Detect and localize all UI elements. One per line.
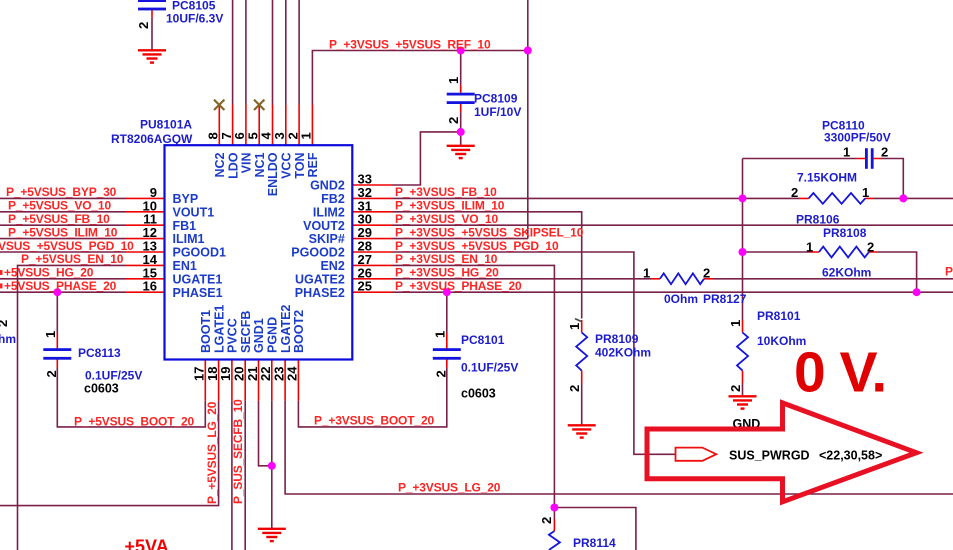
svg-text:UGATE2: UGATE2: [295, 272, 345, 286]
svg-text:PR8114: PR8114: [573, 536, 616, 550]
svg-text:25: 25: [358, 279, 372, 294]
wire pin7 VIN riser from top edge: [232, 0, 234, 105]
pin 24 stub: [297, 360, 299, 401]
svg-text:2: 2: [136, 22, 151, 29]
svg-text:PU8101A: PU8101A: [140, 118, 192, 132]
svg-text:GND1: GND1: [252, 318, 266, 353]
svg-text:1: 1: [433, 331, 448, 338]
wire REF net pin1 to horizontal run: [312, 51, 527, 105]
resistor PR8127 stubs: [651, 278, 713, 280]
svg-text:SECFB: SECFB: [239, 311, 253, 353]
pin 15 stub: [126, 278, 165, 280]
svg-text:1: 1: [446, 77, 461, 84]
svg-text:2: 2: [0, 320, 10, 327]
resistor PR8114 zigzag (cut off at bottom): [549, 531, 560, 550]
svg-text:P_+3VSUS_BOOT_20: P_+3VSUS_BOOT_20: [314, 414, 434, 428]
wire pin4 riser from top edge: [272, 0, 274, 105]
no-connect X on pin 5: [254, 100, 264, 110]
wire +3VSUS_ILIM_10 net with drop to PR8109: [393, 212, 582, 319]
wire pin2 riser from top edge: [298, 0, 300, 105]
resistor PR8108 stubs: [810, 251, 878, 253]
capacitor PC8101 plates: [433, 348, 461, 359]
wire +5VSUS_BYP_30 net: [0, 197, 126, 199]
svg-text:PGOOD1: PGOOD1: [173, 246, 227, 260]
wire PC8113 bottom to BOOT1 pin17: [57, 368, 205, 427]
pin 10 stub: [126, 211, 165, 213]
svg-text:<22,30,58>: <22,30,58>: [819, 449, 882, 463]
svg-text:PHASE1: PHASE1: [173, 286, 223, 300]
wire +3VSUS_FB_10 net right part to edge: [874, 197, 953, 199]
node junction dot PHASE/PC8101: [443, 288, 451, 296]
svg-text:SKIP#: SKIP#: [309, 232, 345, 246]
pin 4 stub: [272, 105, 274, 146]
capacitor PC8110 plates: [865, 148, 874, 169]
pin 23 stub: [284, 360, 286, 401]
svg-text:RT8206AGQW: RT8206AGQW: [111, 132, 193, 146]
svg-text:PGND: PGND: [266, 317, 280, 353]
pin 19 stub: [231, 360, 233, 401]
svg-text:P_+5VSUS_LG_20: P_+5VSUS_LG_20: [205, 401, 219, 504]
svg-text:PR8108: PR8108: [823, 226, 867, 240]
capacitor PC8101 stubs: [446, 333, 448, 368]
node junction dot 62K left: [739, 248, 747, 256]
resistor PR8114 stub: [553, 519, 555, 531]
svg-text:2: 2: [881, 145, 888, 160]
resistor PR8108 zigzag 62KOhm: [819, 247, 869, 258]
svg-text:0Ohm: 0Ohm: [664, 292, 698, 306]
wire PR8101 bottom lead to ground: [742, 383, 744, 396]
net label sliver cut at left edge (HG row): [0, 270, 3, 275]
wire +5VSUS_EN_10 net with drop to bottom edge: [18, 265, 126, 550]
pin 14 stub: [126, 264, 165, 266]
capacitor PC8109 stubs: [460, 85, 462, 112]
node junction dot PHASE/PC8113: [53, 288, 61, 296]
svg-text:P_+3VSUS_+5VSUS_PGD_10: P_+3VSUS_+5VSUS_PGD_10: [395, 239, 559, 253]
pin 22 stub: [271, 360, 273, 401]
wire SECFB pin20 to bottom edge: [244, 401, 246, 550]
svg-text:PR8101: PR8101: [757, 309, 801, 323]
svg-text:2: 2: [446, 117, 461, 124]
net label sliver cut at left edge (PHASE row): [0, 283, 3, 288]
svg-text:PC8101: PC8101: [461, 333, 505, 347]
node junction dot GND1/PGND: [268, 462, 276, 470]
svg-text:UGATE1: UGATE1: [173, 272, 223, 286]
svg-text:+5VSUS_PHASE_20: +5VSUS_PHASE_20: [4, 279, 117, 293]
wire +5VSUS_ILIM_10 net: [0, 238, 126, 240]
wire PC8101 top lead from PHASE junction: [446, 292, 448, 333]
svg-text:1: 1: [567, 323, 582, 330]
svg-text:P_+3VSUS_VO_10: P_+3VSUS_VO_10: [395, 212, 498, 226]
node junction dot FB line right: [899, 194, 907, 202]
capacitor PC8113 plates: [43, 348, 71, 359]
svg-text:FB1: FB1: [173, 219, 197, 233]
svg-text:BYP: BYP: [173, 192, 199, 206]
wire +5VSUS_PHASE_20 net: [0, 291, 126, 293]
wire +3VSUS_EN_10 net with drop to PR8114 junction: [393, 265, 555, 507]
wire pin6 riser from top edge: [245, 0, 247, 105]
node junction dot REF right end: [524, 47, 532, 55]
wire pin3 riser from top edge: [285, 0, 287, 105]
wire PC8110 left lead: [743, 158, 857, 160]
svg-text:1: 1: [843, 145, 850, 160]
wire PC8109 bottom lead to junction and ground: [460, 112, 462, 146]
svg-text:1: 1: [862, 185, 869, 200]
svg-text:P_+5VSUS_FB_10: P_+5VSUS_FB_10: [8, 212, 110, 226]
pin 17 stub: [204, 360, 206, 401]
svg-text:LGATE2: LGATE2: [279, 305, 293, 353]
svg-text:0 V.: 0 V.: [794, 341, 886, 405]
svg-text:3300PF/50V: 3300PF/50V: [824, 131, 891, 145]
svg-text:P_+3VSUS_+5VSUS_SKIPSEL_10: P_+3VSUS_+5VSUS_SKIPSEL_10: [395, 225, 584, 239]
pin 2 stub: [298, 105, 300, 146]
svg-text:NC1: NC1: [253, 152, 267, 177]
pin 1 stub: [311, 105, 313, 146]
svg-text:PGOOD2: PGOOD2: [291, 246, 345, 260]
svg-text:62KOhm: 62KOhm: [822, 266, 871, 280]
svg-text:P_+3VSUS_PHASE_20: P_+3VSUS_PHASE_20: [395, 279, 522, 293]
svg-text:ILIM1: ILIM1: [173, 232, 205, 246]
svg-text:2: 2: [434, 370, 449, 377]
capacitor PC8110 stubs: [857, 158, 883, 160]
svg-text:EN2: EN2: [320, 259, 344, 273]
svg-text:P_+5VSUS_BYP_30: P_+5VSUS_BYP_30: [6, 185, 117, 199]
resistor PR8106 zigzag 7.15KOHM: [809, 193, 866, 204]
svg-text:ENLDO: ENLDO: [266, 152, 280, 196]
pin 5 stub: [258, 105, 260, 145]
svg-text:2: 2: [867, 240, 874, 255]
no-connect X on pin 8: [214, 100, 224, 110]
svg-text:2: 2: [44, 370, 59, 377]
wire 62KOhm left lead: [743, 251, 811, 253]
wire PC8105 bottom lead to ground: [151, 18, 153, 50]
svg-text:TON: TON: [293, 153, 307, 179]
svg-text:24: 24: [285, 366, 300, 381]
pin 12 stub: [126, 238, 165, 240]
svg-text:PR8127: PR8127: [703, 292, 747, 306]
svg-text:hm: hm: [0, 332, 16, 346]
pin 28 stub: [352, 251, 392, 253]
pin 13 stub: [126, 251, 165, 253]
pin 30 stub: [352, 224, 392, 226]
svg-text:PC8113: PC8113: [78, 346, 121, 360]
wire PC8110 right lead down to FB line: [882, 159, 903, 199]
wire PGD net with drop to SUS_PWRGD pointer: [393, 252, 676, 454]
svg-text:+5VSUS_HG_20: +5VSUS_HG_20: [4, 266, 94, 280]
pin 21 stub: [258, 360, 260, 401]
wire PC8109 top lead: [460, 51, 462, 86]
svg-text:EN1: EN1: [173, 259, 197, 273]
resistor PR8109 stubs: [581, 320, 583, 383]
svg-text:P_+5VSUS_ILIM_10: P_+5VSUS_ILIM_10: [8, 225, 118, 239]
svg-text:PHASE2: PHASE2: [295, 286, 345, 300]
pin 27 stub: [352, 264, 392, 266]
wire +3VSUS_FB_10 net left part: [393, 197, 800, 199]
svg-text:P_+3VSUS_ILIM_10: P_+3VSUS_ILIM_10: [395, 199, 505, 213]
svg-text:7.15KOHM: 7.15KOHM: [797, 171, 857, 185]
node junction dot GND2/PC8109/ground: [457, 128, 465, 136]
svg-text:c0603: c0603: [461, 387, 496, 401]
wire +3VSUS_HG_20 net left of 0Ohm: [393, 278, 652, 280]
pin 31 stub: [352, 211, 392, 213]
svg-text:+5VA: +5VA: [125, 537, 169, 550]
resistor PR8109 zigzag 402KOhm: [576, 333, 587, 371]
pin 6 stub: [245, 105, 247, 146]
node junction dot REF at PC8109 riser: [457, 47, 465, 55]
svg-text:P_+3VSUS_LG_20: P_+3VSUS_LG_20: [398, 481, 501, 495]
wire +3VSUS_HG_20 net right of 0Ohm to edge: [713, 278, 953, 280]
wire end tick at PR8109 top: [575, 319, 581, 322]
svg-text:0.1UF/25V: 0.1UF/25V: [85, 369, 142, 383]
wire +5VSUS_PGD_10 net: [0, 251, 126, 253]
svg-text:FB2: FB2: [321, 192, 345, 206]
svg-text:2: 2: [539, 517, 554, 524]
svg-text:P_+5VSUS_VO_10: P_+5VSUS_VO_10: [8, 199, 111, 213]
pin 18 stub: [218, 360, 220, 401]
capacitor PC8105 stubs: [151, 10, 153, 18]
resistor PR8127 zigzag 0Ohm: [660, 273, 704, 284]
ground symbol GND at PR8101: [729, 396, 757, 408]
svg-text:P_+3VSUS_FB_10: P_+3VSUS_FB_10: [395, 185, 497, 199]
svg-text:LDO: LDO: [226, 152, 240, 179]
svg-text:BOOT1: BOOT1: [199, 310, 213, 353]
wire +5VSUS_VO_10 net: [0, 211, 126, 213]
svg-text:2: 2: [791, 185, 798, 200]
wire PVCC pin19 to bottom edge: [231, 401, 233, 550]
svg-text:1: 1: [806, 240, 813, 255]
pin 29 stub: [352, 238, 392, 240]
svg-text:PR8106: PR8106: [796, 213, 840, 227]
svg-text:BOOT2: BOOT2: [292, 310, 306, 353]
svg-text:P_: P_: [945, 265, 953, 279]
svg-text:c0603: c0603: [84, 382, 119, 396]
pin 32 stub: [352, 197, 392, 199]
wire +3VSUS_PHASE_20 net: [393, 291, 953, 293]
wire +5VSUS_HG_20 net: [0, 278, 126, 280]
svg-text:P_SUS_SECFB_10: P_SUS_SECFB_10: [231, 399, 245, 504]
svg-text:PVCC: PVCC: [226, 318, 240, 353]
wire REF riser to top edge and down to SKIPSEL row: [527, 0, 529, 239]
pin 11 stub: [126, 224, 165, 226]
pin 7 stub: [232, 105, 234, 146]
wire LGATE2 pin23 +3VSUS_LG_20 net to right edge: [285, 401, 953, 494]
wire SKIPSEL net: [393, 238, 528, 240]
pin 3 stub: [285, 105, 287, 146]
svg-text:P_+3VSUS_HG_20: P_+3VSUS_HG_20: [395, 266, 499, 280]
pin 20 stub: [244, 360, 246, 401]
pin 33 stub: [352, 184, 392, 186]
pin 25 stub: [352, 291, 392, 293]
svg-text:1: 1: [43, 331, 58, 338]
svg-text:SUS_PWRGD: SUS_PWRGD: [729, 449, 810, 463]
svg-text:REF: REF: [306, 152, 320, 177]
node junction dot 62K right on PHASE line: [913, 288, 921, 296]
wire PGND pin22 to ground: [271, 401, 273, 529]
pin 26 stub: [352, 278, 392, 280]
wire LGATE1 pin18 to left edge: [0, 401, 219, 506]
svg-text:1: 1: [643, 266, 650, 281]
wire GND2 net to PC8109/ground junction: [393, 132, 461, 185]
svg-text:2: 2: [567, 385, 582, 392]
resistor PR8101 stubs: [742, 320, 744, 383]
svg-text:2: 2: [703, 266, 710, 281]
svg-text:NC2: NC2: [213, 152, 227, 177]
svg-text:P_+3VSUS_EN_10: P_+3VSUS_EN_10: [395, 252, 498, 266]
capacitor PC8105 plates: [138, 0, 166, 10]
svg-text:VSUS_+5VSUS_PGD_10: VSUS_+5VSUS_PGD_10: [0, 239, 134, 253]
op-amp U1 / IC PU8101A body outline: [165, 145, 353, 359]
svg-text:10UF/6.3V: 10UF/6.3V: [166, 12, 223, 26]
svg-text:VCC: VCC: [280, 153, 294, 179]
ground symbol at PR8109: [568, 425, 596, 437]
wire EN junction to bottom edge: [554, 508, 636, 550]
capacitor PC8113 stubs: [56, 333, 58, 368]
wire PR8109 bottom lead to ground: [581, 383, 583, 425]
svg-text:1UF/10V: 1UF/10V: [474, 105, 521, 119]
svg-text:LGATE1: LGATE1: [212, 305, 226, 353]
svg-text:P_+3VSUS_+5VSUS_REF_10: P_+3VSUS_+5VSUS_REF_10: [329, 38, 491, 52]
svg-text:ILIM2: ILIM2: [313, 205, 345, 219]
svg-text:16: 16: [143, 279, 157, 294]
capacitor PC8109 plates: [447, 93, 475, 104]
svg-text:1: 1: [728, 320, 743, 327]
resistor PR8101 zigzag 10KOhm: [737, 333, 748, 371]
svg-text:0.1UF/25V: 0.1UF/25V: [461, 361, 518, 375]
svg-text:1: 1: [299, 132, 314, 139]
ground symbol at PC8105: [138, 50, 166, 62]
svg-text:P_+5VSUS_BOOT_20: P_+5VSUS_BOOT_20: [74, 414, 194, 428]
pin 16 stub: [126, 291, 165, 293]
ground symbol at PC8109 / GND2: [447, 146, 475, 158]
svg-text:VOUT1: VOUT1: [173, 205, 215, 219]
wire +5VSUS_FB_10 net: [0, 224, 126, 226]
ground symbol at PGND pin22: [258, 529, 286, 541]
node junction dot FB line left: [739, 194, 747, 202]
pin 9 stub: [126, 197, 165, 199]
wire PC8113 top lead from PHASE junction: [56, 292, 58, 333]
svg-text:P_+5VSUS_EN_10: P_+5VSUS_EN_10: [21, 252, 124, 266]
big annotation arrow SUS_PWRGD: [647, 403, 916, 502]
svg-text:402KOhm: 402KOhm: [595, 346, 651, 360]
wire +3VSUS_VO_10 net: [393, 224, 953, 226]
svg-text:GND2: GND2: [310, 179, 345, 193]
svg-text:PC8109: PC8109: [474, 92, 518, 106]
wire FB junction vertical down to PR8101: [742, 159, 744, 321]
svg-text:VOUT2: VOUT2: [303, 219, 345, 233]
node junction dot EN/PR8114: [550, 504, 558, 512]
wire BOOT2 pin24 to PC8101: [298, 368, 446, 427]
svg-text:2: 2: [728, 385, 743, 392]
wire PR8114 top lead: [553, 508, 555, 520]
pin 8 stub: [218, 105, 220, 145]
off-page pointer symbol SUS_PWRGD: [676, 448, 717, 461]
resistor PR8106 stubs: [800, 197, 875, 199]
svg-text:PR8109: PR8109: [595, 332, 639, 346]
wire 62KOhm right lead down to PHASE line: [878, 252, 917, 292]
wire GND1 pin21 to PGND junction: [259, 401, 272, 466]
svg-text:VIN: VIN: [240, 153, 254, 174]
